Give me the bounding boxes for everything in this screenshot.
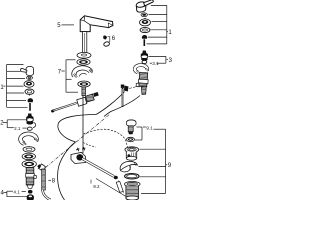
small ring left: [27, 76, 33, 79]
o-ring 2.1: [27, 127, 32, 130]
C piece: [73, 68, 93, 78]
clamp right: [135, 65, 149, 74]
drain wedge: [120, 161, 137, 172]
drain flange body: [125, 147, 139, 160]
clamp left: [21, 134, 39, 145]
lever right: [136, 0, 154, 12]
screw ball left: [28, 98, 34, 102]
dome ring left: [24, 81, 34, 88]
hose 8 elbow: [37, 164, 45, 172]
ring 6: [103, 41, 110, 47]
bracket 9.1: [135, 127, 166, 140]
ring A: [77, 52, 91, 58]
hose upper: [96, 92, 125, 115]
svg-text:3.1: 3.1: [152, 61, 159, 66]
rod knob plate: [71, 147, 86, 164]
nut 4: [27, 194, 34, 201]
washer: [23, 147, 35, 152]
drain o-ring: [125, 174, 139, 179]
ring hatched: [22, 160, 36, 167]
drain pull rod: [121, 85, 124, 108]
bracket 7: [61, 60, 78, 92]
svg-text:4.1: 4.1: [13, 189, 20, 194]
screw 6: [103, 36, 107, 40]
label 9.2: [90, 180, 92, 184]
label 4 bracket: [3, 191, 28, 197]
rod strap: [116, 182, 123, 193]
valve body right: [136, 72, 148, 94]
ring C dark: [78, 81, 90, 87]
bracket 3: [149, 56, 169, 63]
line L2: [129, 86, 138, 88]
screw shaft left: [29, 103, 31, 111]
o-ring left: [25, 89, 34, 96]
small dark ring right: [141, 13, 147, 17]
drain bottom body: [125, 181, 141, 200]
lift rod: [51, 92, 99, 113]
hose C1 from right valve: [104, 96, 140, 117]
svg-text:9.2: 9.2: [93, 184, 100, 189]
o-ring right: [140, 27, 150, 32]
ring B dark: [77, 59, 90, 65]
nut ring 4.1: [28, 190, 32, 193]
valve cylinder left: [26, 168, 37, 189]
dome ring right: [140, 18, 151, 26]
svg-text:9.1: 9.1: [146, 125, 153, 130]
ring 3.1: [142, 60, 147, 63]
line L1: [46, 114, 111, 168]
svg-text:2.1: 2.1: [14, 126, 21, 131]
label 6 bracket: [108, 37, 110, 42]
label 2 bracket: [3, 120, 28, 128]
bracket 1 right: [147, 5, 169, 44]
drain plug: [126, 120, 136, 134]
o-ring dark: [22, 153, 35, 160]
hose 8 pipe: [42, 169, 46, 190]
valve part 3: [141, 51, 148, 61]
dashed plug line: [84, 129, 129, 148]
vertical rod: [82, 96, 84, 154]
screw right: [143, 39, 145, 46]
spout 5: [80, 16, 113, 32]
hose end nub: [124, 86, 129, 92]
drain ring: [127, 137, 135, 141]
ball right: [142, 35, 148, 39]
handle knob left: [20, 66, 33, 75]
rod 9.2: [82, 159, 126, 197]
dashed fragment: [83, 143, 96, 148]
label 8: [48, 179, 51, 181]
bracket 1 left: [3, 65, 27, 108]
hose 8 tail: [43, 190, 51, 200]
spout shank: [82, 32, 86, 53]
shaft below ring C: [82, 87, 86, 96]
bracket 9: [139, 129, 168, 193]
hose loop: [58, 115, 96, 201]
valve top part 2: [26, 114, 35, 128]
